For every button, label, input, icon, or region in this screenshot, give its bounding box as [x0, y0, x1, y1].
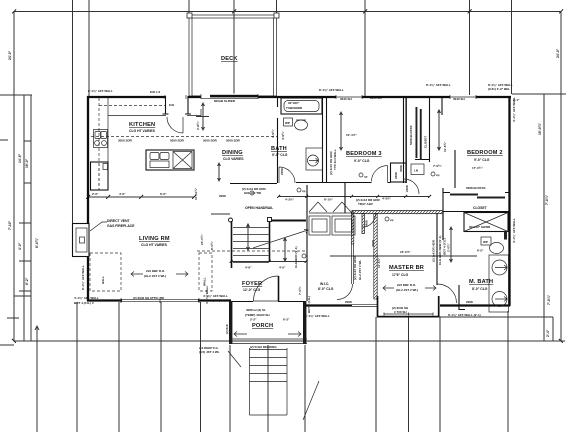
- wic/master divider: [351, 212, 354, 244]
- extension line x365: [364, 0, 366, 96]
- long dashed clg break: [91, 136, 277, 138]
- master bay windows: [384, 313, 433, 316]
- grade line x408: [408, 317, 410, 432]
- svg-text:30"x60": 30"x60": [288, 101, 300, 105]
- svg-text:11'-6¾": 11'-6¾": [443, 141, 447, 152]
- svg-text:9'-0" CLG: 9'-0" CLG: [474, 158, 490, 162]
- living rm dashed col right: [199, 253, 212, 291]
- exterior bottom foyer-master: [306, 304, 510, 306]
- porch stair treads: [250, 348, 288, 415]
- bedroom3 corner closet: [391, 163, 407, 182]
- svg-text:OPEN HANDRAIL: OPEN HANDRAIL: [245, 206, 273, 210]
- closet south wall: [443, 188, 509, 212]
- svg-text:8'-1⅜" AFF WALL: 8'-1⅜" AFF WALL: [319, 88, 344, 92]
- bath1 wp box: [284, 118, 293, 126]
- clg break dim line: [330, 255, 477, 257]
- svg-text:BOT 4 (F.G.) #: BOT 4 (F.G.) #: [74, 301, 94, 305]
- grade line x200: [200, 302, 202, 432]
- svg-text:BEDROOM 2: BEDROOM 2: [467, 150, 503, 156]
- dining dim arrow: [218, 163, 220, 181]
- window 3040SH bedroom3: [336, 95, 362, 99]
- bedroom3 east wall: [405, 96, 407, 183]
- master west hatched wall: [374, 214, 377, 300]
- svg-text:9'-0" CLG: 9'-0" CLG: [354, 159, 370, 163]
- svg-text:WALL: WALL: [203, 277, 207, 286]
- laundry north wall: [309, 212, 351, 214]
- grade line x161: [160, 302, 162, 432]
- svg-text:5050 SDR: 5050 SDR: [203, 139, 218, 143]
- svg-text:6'-2": 6'-2": [283, 318, 290, 322]
- svg-text:2068: 2068: [280, 168, 284, 175]
- bedroom2 west wall: [442, 96, 455, 188]
- extension line x189: [188, 0, 190, 15]
- svg-text:4'-1⅜" AFF WALL: 4'-1⅜" AFF WALL: [74, 296, 99, 300]
- stair rails: [232, 221, 270, 268]
- living arrows: [131, 272, 188, 277]
- stair dim tick: [211, 213, 230, 215]
- svg-text:cp: cp: [436, 173, 440, 177]
- svg-text:2468: 2468: [405, 185, 409, 192]
- mbath dim arrow: [450, 227, 452, 262]
- master bay walls: [377, 296, 440, 317]
- stairs west wall: [306, 185, 308, 301]
- exterior right wall: [508, 96, 510, 306]
- bedroom3 west wall: [326, 96, 328, 183]
- porch arrows: [234, 332, 301, 337]
- laundry boxes: [309, 216, 330, 235]
- svg-text:CLG BRK NEW (9'-1): CLG BRK NEW (9'-1): [438, 236, 442, 265]
- svg-text:2068: 2068: [219, 194, 226, 198]
- bedroom2 closet bi-pass: [443, 192, 509, 194]
- svg-text:6'-2": 6'-2": [25, 277, 29, 285]
- svg-text:3040 SH: 3040 SH: [370, 96, 382, 100]
- svg-text:8'-0" CLG: 8'-0" CLG: [472, 287, 488, 291]
- deck post right: [274, 13, 279, 18]
- wic door arc: [337, 284, 353, 300]
- porch bottom edge: [229, 339, 307, 344]
- svg-text:8'-0¾": 8'-0¾": [35, 237, 39, 248]
- svg-text:WP: WP: [483, 240, 488, 244]
- svg-text:2x6 DBF R.O.: 2x6 DBF R.O.: [397, 283, 416, 287]
- svg-text:4'-1⅜" AFF WALL: 4'-1⅜" AFF WALL: [512, 218, 516, 243]
- deck post left: [187, 13, 192, 18]
- master door stub: [362, 214, 364, 234]
- bedroom3 dim arrow: [340, 112, 342, 150]
- bi-pass door leaves: [416, 107, 418, 158]
- svg-text:7'-0¼": 7'-0¼": [545, 194, 549, 205]
- svg-text:TYP 2x4 WALL: TYP 2x4 WALL: [333, 149, 337, 170]
- master door arc: [363, 214, 376, 227]
- svg-text:2x6 DBF R.O.: 2x6 DBF R.O.: [146, 269, 165, 273]
- svg-text:4'-9¾": 4'-9¾": [271, 128, 275, 138]
- grade line x37: [36, 326, 38, 432]
- svg-text:4'-0": 4'-0": [279, 266, 286, 270]
- svg-text:DECK: DECK: [221, 56, 238, 62]
- svg-text:4'-0": 4'-0": [18, 242, 22, 250]
- pantry door arc: [167, 117, 183, 133]
- svg-text:CLG HT VARIES: CLG HT VARIES: [141, 243, 168, 247]
- svg-text:BEDROOM 3: BEDROOM 3: [346, 151, 382, 157]
- fireplace leader: [90, 222, 107, 231]
- svg-text:FOYER: FOYER: [242, 281, 262, 287]
- mbath west wall w/ door: [443, 212, 465, 310]
- svg-text:4'-6": 4'-6": [245, 266, 252, 270]
- porch top / house door wall: [232, 301, 303, 303]
- svg-text:M. BATH: M. BATH: [469, 279, 493, 285]
- svg-text:CLOSET: CLOSET: [424, 136, 428, 148]
- svg-text:4'-1⅜" AFF WALL: 4'-1⅜" AFF WALL: [305, 314, 330, 318]
- window 3040SH bedroom2: [450, 95, 476, 99]
- svg-text:(GL2 JST # WL): (GL2 JST # WL): [144, 274, 166, 278]
- svg-text:(3.5) JST 4 WL: (3.5) JST 4 WL: [199, 350, 220, 354]
- svg-text:W.I.C.: W.I.C.: [320, 282, 329, 286]
- hall closet door arc: [404, 179, 419, 194]
- hall north header: [230, 183, 277, 185]
- dim slashes top: [12, 10, 563, 14]
- grade diagonal left: [228, 351, 241, 367]
- svg-text:(GL2 JST # WL): (GL2 JST # WL): [396, 288, 418, 292]
- svg-text:BOT 4 (F.G.): BOT 4 (F.G.): [307, 296, 311, 313]
- shower mbath: [464, 213, 508, 232]
- mbath fixtures wall: [442, 212, 444, 240]
- svg-text:(9.31) 4'-9" BEL: (9.31) 4'-9" BEL: [488, 87, 510, 91]
- svg-text:17'-0¾": 17'-0¾": [472, 166, 483, 170]
- grade line x376: [375, 317, 377, 432]
- svg-text:15'-0¾": 15'-0¾": [538, 123, 542, 135]
- svg-text:(2) 3040 SH ATTIC TRI: (2) 3040 SH ATTIC TRI: [133, 296, 164, 300]
- svg-text:2468: 2468: [394, 172, 398, 179]
- svg-text:WP: WP: [285, 121, 290, 125]
- svg-text:5068 BI-PASS: 5068 BI-PASS: [466, 186, 485, 190]
- grade line x230: [229, 345, 231, 432]
- exterior top wall: [87, 96, 511, 98]
- pantry dim arrow: [202, 103, 204, 130]
- left ticks: [0, 94, 32, 96]
- svg-text:(2) 6x6: (2) 6x6: [225, 324, 229, 334]
- svg-text:DINING: DINING: [222, 150, 243, 156]
- svg-text:8'-1½": 8'-1½": [324, 198, 334, 202]
- svg-text:10'-11¾": 10'-11¾": [194, 187, 198, 200]
- svg-text:11'-6¾": 11'-6¾": [377, 257, 381, 268]
- bottom dimension line: [14, 340, 565, 342]
- svg-text:2'-4": 2'-4": [546, 329, 550, 337]
- svg-text:24'-0": 24'-0": [8, 50, 12, 60]
- svg-text:60"x42" SHWR: 60"x42" SHWR: [469, 225, 491, 229]
- bedroom2 dim arrow: [438, 110, 440, 150]
- mbath wp box: [481, 237, 491, 245]
- svg-text:8'-1⅜" AFF WALL: 8'-1⅜" AFF WALL: [88, 89, 113, 93]
- svg-text:15'-0¾": 15'-0¾": [200, 234, 204, 245]
- porch left wall: [229, 301, 232, 344]
- mbath door arc: [438, 284, 457, 303]
- exterior left wall: [87, 96, 89, 301]
- svg-text:3040 SH: 3040 SH: [340, 97, 352, 101]
- svg-text:E/O 1.2: E/O 1.2: [150, 90, 161, 94]
- extension line x89: [88, 0, 90, 96]
- svg-text:2'-2": 2'-2": [250, 318, 257, 322]
- master arrows: [383, 286, 436, 291]
- svg-text:17'6" CLG: 17'6" CLG: [392, 273, 409, 277]
- svg-text:CLG HT VARIES: CLG HT VARIES: [129, 129, 156, 133]
- svg-text:GAS FIREPLACE: GAS FIREPLACE: [107, 224, 135, 228]
- pantry walls: [163, 96, 192, 114]
- upper floor dashed line: [197, 250, 306, 252]
- svg-text:14'-6": 14'-6": [18, 153, 22, 163]
- svg-text:2'-0": 2'-0": [92, 192, 99, 196]
- mbath vanity counter: [489, 255, 509, 312]
- svg-text:(2) 5/4x6 DECKING: (2) 5/4x6 DECKING: [250, 345, 277, 349]
- deck outline: [189, 15, 277, 96]
- svg-text:6'-5": 6'-5": [477, 249, 484, 253]
- svg-text:7'-0¾": 7'-0¾": [298, 285, 302, 295]
- svg-text:PORCH: PORCH: [252, 323, 273, 329]
- svg-text:cp: cp: [302, 189, 306, 193]
- dining smoke: [250, 191, 254, 195]
- svg-text:(TEMP) 40x60 SH: (TEMP) 40x60 SH: [245, 313, 270, 317]
- svg-text:2'-8¾": 2'-8¾": [196, 120, 200, 130]
- svg-text:2068: 2068: [466, 300, 473, 304]
- svg-text:CLG BRK (9'-1): CLG BRK (9'-1): [294, 246, 298, 268]
- svg-text:TRAY ABV: TRAY ABV: [358, 202, 373, 206]
- bath1 toilet: [295, 120, 308, 130]
- top slider jamb ticks: [165, 95, 186, 99]
- svg-text:2068: 2068: [345, 300, 352, 304]
- stair newel post left: [229, 218, 233, 222]
- smoke detectors: [297, 173, 363, 258]
- svg-text:4'-3½": 4'-3½": [382, 197, 392, 201]
- stair bottom dims: [232, 261, 306, 263]
- svg-text:4'-0": 4'-0": [119, 192, 126, 196]
- svg-text:3050 SDR: 3050 SDR: [118, 139, 133, 143]
- svg-text:7'-10": 7'-10": [8, 220, 12, 230]
- kitchen-dining dashed upper cabinets: [99, 98, 165, 190]
- svg-text:MASTER BR: MASTER BR: [389, 265, 424, 271]
- grade line x508: [507, 311, 509, 432]
- svg-text:TUB/SHWR: TUB/SHWR: [286, 106, 303, 110]
- svg-text:16'-0½": 16'-0½": [400, 250, 411, 254]
- svg-text:5050 SDR: 5050 SDR: [170, 139, 185, 143]
- svg-text:(2) 2x6 DR HDR: (2) 2x6 DR HDR: [432, 239, 436, 262]
- fireplace bump-out: [73, 224, 90, 257]
- bath1 east wall: [322, 96, 324, 183]
- grade line x119: [118, 302, 120, 432]
- refrigerator: [91, 162, 109, 190]
- right upper tick: [512, 93, 566, 95]
- svg-text:7'-0¼": 7'-0¼": [547, 294, 551, 305]
- svg-text:2468: 2468: [365, 220, 369, 227]
- svg-text:5050 SDR: 5050 SDR: [226, 139, 241, 143]
- svg-text:LN: LN: [414, 169, 418, 173]
- svg-text:24'-0": 24'-0": [556, 48, 560, 58]
- svg-text:12'-0" CLG: 12'-0" CLG: [243, 288, 261, 292]
- top dimension line: [14, 11, 561, 13]
- exterior bottom-left wall: [87, 299, 231, 301]
- kitchen sink counter: [94, 130, 108, 148]
- svg-text:3068: 3068: [371, 240, 375, 247]
- grade diagonal right: [303, 381, 319, 420]
- extension line x234: [233, 0, 235, 95]
- bedroom3 south wall: [326, 182, 391, 184]
- foyer door to porch: [253, 300, 278, 302]
- svg-text:8'-1⅜" AFF WALL: 8'-1⅜" AFF WALL: [81, 265, 85, 290]
- grade line x305: [304, 345, 306, 432]
- svg-text:BATH: BATH: [271, 146, 287, 152]
- stair treads: [233, 228, 269, 263]
- moab slider door: [201, 94, 258, 100]
- svg-text:8'-1⅜" AFF WALL: 8'-1⅜" AFF WALL: [426, 83, 451, 87]
- bath1 tub: [281, 98, 322, 114]
- stair newel post right: [268, 218, 272, 222]
- extension line x469: [469, 0, 471, 96]
- svg-text:E/G: E/G: [169, 103, 175, 107]
- kitchen island: [146, 150, 194, 170]
- counter edge: [108, 98, 201, 190]
- extension line x276: [276, 0, 278, 15]
- mbath sink1: [492, 260, 507, 275]
- laundry bifold doors: [309, 202, 351, 212]
- linen box: [411, 164, 424, 175]
- svg-text:8'-1": 8'-1": [513, 98, 520, 102]
- svg-text:8'-0" CLG: 8'-0" CLG: [318, 287, 334, 291]
- svg-text:cp: cp: [364, 175, 368, 179]
- living rm dashed col left: [90, 253, 121, 291]
- bedroom3 closet partition: [404, 98, 430, 183]
- porch right wall: [303, 301, 306, 344]
- svg-text:KITCHEN: KITCHEN: [129, 122, 155, 128]
- bath1 vanity: [306, 148, 323, 170]
- svg-text:3040 SH: 3040 SH: [453, 97, 465, 101]
- extension line x511: [511, 0, 513, 94]
- left dimension line: [13, 12, 15, 342]
- svg-text:12'-4½": 12'-4½": [346, 133, 357, 137]
- extension line x72: [72, 0, 74, 223]
- grade line x440: [439, 317, 441, 432]
- svg-text:4'-9¾": 4'-9¾": [281, 130, 285, 140]
- svg-text:4'-3½": 4'-3½": [285, 198, 295, 202]
- bath1 west wall: [277, 96, 279, 183]
- grade line x77: [76, 302, 78, 432]
- svg-text:# 700 SH: # 700 SH: [394, 310, 407, 314]
- stair dim arrows: [247, 224, 249, 250]
- bath1 south wall: [296, 182, 326, 184]
- svg-text:DIRECT VENT: DIRECT VENT: [107, 219, 131, 223]
- svg-text:(2) 2x10 DR HDR: (2) 2x10 DR HDR: [353, 255, 357, 280]
- svg-text:5068 BI-PASS: 5068 BI-PASS: [409, 126, 413, 145]
- svg-text:7'-0¾": 7'-0¾": [433, 164, 443, 168]
- window (2)3040SH living: [121, 298, 199, 303]
- svg-text:LIVING RM: LIVING RM: [139, 236, 170, 242]
- mbath sink2: [492, 292, 507, 307]
- bedroom3 door arc: [372, 166, 388, 183]
- svg-text:2'-0¾": 2'-0¾": [447, 242, 451, 252]
- hall dim line: [278, 196, 430, 198]
- svg-text:HALL: HALL: [101, 276, 105, 284]
- svg-text:BOT 4 (F.G.) #: BOT 4 (F.G.) #: [203, 299, 223, 303]
- svg-text:16'-0": 16'-0": [25, 158, 29, 168]
- svg-text:CLOSET: CLOSET: [473, 206, 488, 210]
- svg-text:3068: 3068: [399, 165, 403, 172]
- svg-text:GDL HD TRI: GDL HD TRI: [244, 191, 261, 195]
- svg-text:3068 w/ (2) SL: 3068 w/ (2) SL: [246, 308, 266, 312]
- svg-text:6'-0": 6'-0": [160, 192, 167, 196]
- right lower tick: [435, 316, 553, 318]
- master east wall: [436, 213, 438, 285]
- kitchen dim line: [88, 196, 194, 198]
- master north wall: [352, 211, 443, 214]
- svg-text:8'-0¾": 8'-0¾": [210, 240, 214, 250]
- svg-text:4'-1⅜" AFF WALL: 4'-1⅜" AFF WALL: [203, 294, 228, 298]
- right dimension line: [560, 12, 562, 342]
- svg-text:9'-0" CLG: 9'-0" CLG: [272, 153, 288, 157]
- stair up arrow: [253, 230, 308, 249]
- svg-text:CLG VARIES: CLG VARIES: [223, 157, 244, 161]
- svg-text:cp: cp: [390, 218, 394, 222]
- svg-text:MOAB SLIDER: MOAB SLIDER: [214, 99, 236, 103]
- grade line x268: [267, 345, 269, 432]
- mbath toilet: [490, 243, 504, 254]
- svg-text:GL2 JST # WL: GL2 JST # WL: [358, 260, 362, 280]
- svg-text:8'-1⅜" AFF WALL (9'-1): 8'-1⅜" AFF WALL (9'-1): [448, 313, 481, 317]
